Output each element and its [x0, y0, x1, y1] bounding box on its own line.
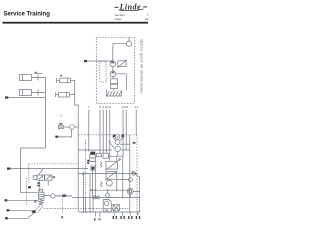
- svg-text:Page: Page: [115, 17, 123, 21]
- port blob P: [5, 199, 8, 201]
- inline orifice 2: [97, 196, 100, 199]
- port blob X: [7, 209, 10, 211]
- filter F1: [97, 153, 102, 156]
- wire h173: [78, 172, 137, 174]
- header rule: [3, 22, 149, 24]
- inner dashed vertical: [85, 140, 87, 197]
- pilot circle: [106, 180, 112, 186]
- leader line 12: [122, 110, 124, 157]
- wire h212: [79, 211, 140, 213]
- wire priority valve to main: [74, 126, 78, 128]
- wire v116: [117, 179, 129, 190]
- pump unit top caps: [113, 134, 116, 137]
- wire h195: [44, 195, 72, 197]
- pump unit gauge circle: [115, 135, 120, 140]
- chamfer diagonal: [132, 171, 140, 213]
- wire cylinder column left: [38, 78, 45, 149]
- inlet wire to option box: [86, 60, 110, 62]
- junction tick: [82, 172, 85, 175]
- port blob on h195: [63, 195, 66, 197]
- svg-text:Service Training: Service Training: [4, 11, 51, 17]
- motor box M: [103, 200, 111, 213]
- terminal drop 3: [129, 212, 131, 216]
- check diamond 2: [105, 190, 110, 198]
- junction X block: [34, 205, 43, 212]
- svg-text:11: 11: [108, 105, 111, 109]
- wire pump to right column: [120, 143, 130, 145]
- gauge G1: [126, 41, 131, 46]
- cylinder C1: [20, 75, 39, 81]
- wire v83: [82, 173, 84, 212]
- valve box with spring: [101, 182, 103, 188]
- wire gauge stem: [130, 191, 139, 197]
- leader line 14: [135, 110, 137, 135]
- cylinder C1 port mark: [34, 72, 43, 74]
- compensator box: [105, 159, 121, 171]
- pump control dashed box: [100, 62, 106, 83]
- wire h156: [108, 156, 123, 160]
- leader line 7: [88, 110, 90, 152]
- drop wires E R: [96, 212, 100, 217]
- wire cylinder column right: [69, 80, 74, 94]
- port blob B: [5, 96, 8, 98]
- pump unit lower circle: [115, 146, 120, 151]
- svg-text:50: 50: [145, 17, 149, 21]
- terminal tick pair 2: [120, 216, 121, 219]
- terminal tick pair 3: [128, 216, 129, 219]
- wire h198: [55, 196, 140, 197]
- option box (dashed): [96, 38, 134, 104]
- terminal drop 2: [122, 212, 124, 216]
- wire h149: [78, 149, 130, 151]
- port blob A: [84, 60, 87, 62]
- solenoid left ticks: [87, 160, 89, 162]
- wire port Y: [8, 214, 34, 219]
- wire port X: [9, 210, 34, 212]
- wire h190: [90, 189, 130, 191]
- inline orifice 1: [93, 196, 96, 199]
- gauge pair: [127, 188, 133, 194]
- svg-text:14: 14: [135, 105, 139, 109]
- directional valve DV1: [33, 175, 55, 180]
- svg-text:13: 13: [125, 105, 129, 109]
- Linde logo: [115, 2, 148, 11]
- terminal drop 1: [114, 212, 116, 216]
- svg-text:Option: Quick lift (double pum: Option: Quick lift (double pump): [140, 40, 144, 94]
- wire port to priority valve: [58, 129, 72, 137]
- priority valve PV: [59, 125, 75, 130]
- leader line 13: [125, 110, 127, 151]
- junction blob: [32, 210, 35, 213]
- terminal drop 4: [137, 212, 139, 216]
- main vertical line left of block: [75, 80, 79, 212]
- pump P2: [110, 71, 116, 77]
- spring box1 left: [100, 162, 102, 168]
- lower block right edge (dashed): [136, 135, 138, 216]
- breather dark block: [113, 205, 119, 211]
- gauge circle G2: [51, 194, 55, 198]
- port blob Y: [5, 217, 8, 219]
- cylinder C2: [20, 90, 39, 96]
- wire sv to filter: [95, 155, 96, 157]
- wire port line B: [8, 97, 45, 99]
- lower block top edge (dashed): [78, 134, 137, 136]
- wire pump outlet right: [116, 74, 126, 90]
- valve block V1: [111, 79, 118, 84]
- valve block V2: [111, 84, 118, 88]
- drop wires center: [90, 158, 95, 212]
- relief valve RV1: [39, 190, 44, 206]
- wire pump column: [112, 47, 115, 90]
- pump unit mid circle: [115, 140, 120, 145]
- leader line 11: [109, 110, 111, 161]
- port blob LS: [7, 168, 10, 170]
- right column solid: [129, 135, 131, 213]
- cylinder C3: [57, 78, 71, 83]
- wire below valve: [40, 180, 48, 191]
- blob mid-left: [28, 186, 31, 188]
- label M pump: [133, 142, 136, 144]
- port wire LS: [11, 168, 89, 170]
- leader line 10: [105, 110, 107, 154]
- junction circle on h173: [132, 172, 135, 175]
- leader line 8: [99, 110, 101, 154]
- wire v92 center: [92, 169, 94, 198]
- dashed h208: [44, 208, 130, 210]
- terminal tick pair 4: [136, 216, 137, 219]
- cylinder C3 port mark: [60, 75, 62, 77]
- tank T1: [106, 90, 121, 96]
- wire elbow left: [20, 148, 45, 193]
- dashed drop to R: [61, 196, 63, 214]
- junction dots: [82, 173, 123, 213]
- variable displacement box: [118, 61, 126, 67]
- navy ticks below valve: [37, 182, 39, 184]
- priority valve label: [59, 123, 62, 125]
- leader line 9: [102, 110, 104, 154]
- pump unit V links: [109, 137, 124, 156]
- cylinder C4: [56, 92, 70, 97]
- junction circle 2: [129, 178, 133, 182]
- port blob C: [55, 136, 58, 138]
- inner dashed box left: [29, 164, 78, 183]
- solenoid valve SV1: [90, 152, 96, 171]
- terminal tick pair 1: [113, 216, 114, 219]
- compensator box 2: [105, 171, 118, 181]
- wire port P left: [7, 199, 39, 201]
- wire diag to valve: [39, 169, 43, 175]
- dashed vertical x26.7: [26, 178, 28, 205]
- wire v122: [122, 156, 124, 197]
- pump P1: [110, 61, 116, 67]
